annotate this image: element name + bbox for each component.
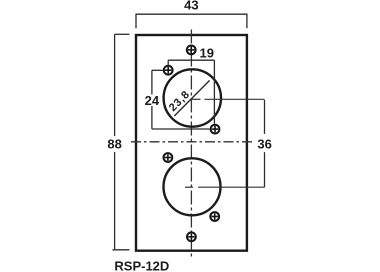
panel outline rectangle [136, 35, 247, 251]
dimension 19 bracket (top screws) [167, 60, 169, 65]
hole circle bottom (XLR cutout) [164, 158, 221, 215]
svg-text:RSP-12D: RSP-12D [114, 259, 169, 272]
dimension 36 line (right) [264, 100, 266, 134]
dimension 88 line (left) [114, 34, 116, 136]
svg-text:19: 19 [200, 46, 214, 61]
bottom circle horizontal centerline + 36 extension [185, 186, 193, 188]
screw hole bottom center [187, 232, 196, 241]
dimension 24 bracket (left of top circle) [151, 70, 153, 94]
svg-text:43: 43 [184, 0, 198, 13]
screw hole top XLR lower-right [211, 125, 220, 134]
wire: vertical center line (dash-dot) [190, 30, 192, 259]
svg-text:88: 88 [107, 137, 121, 152]
screw hole top center [187, 46, 196, 55]
screw hole bottom XLR lower-right [210, 212, 219, 221]
screw hole bottom XLR upper-left [164, 153, 173, 162]
svg-text:36: 36 [257, 137, 271, 152]
diameter diagonal line in top circle [174, 80, 209, 116]
hole circle top (XLR cutout) [164, 69, 221, 126]
svg-text:24: 24 [145, 93, 160, 108]
top circle horizontal centerline + 36 extension [191, 98, 201, 100]
wire: horizontal mid center line (dash-dot) [131, 141, 254, 143]
screw hole top XLR upper-left [164, 66, 173, 75]
dimension 43 line (top) [136, 14, 247, 28]
